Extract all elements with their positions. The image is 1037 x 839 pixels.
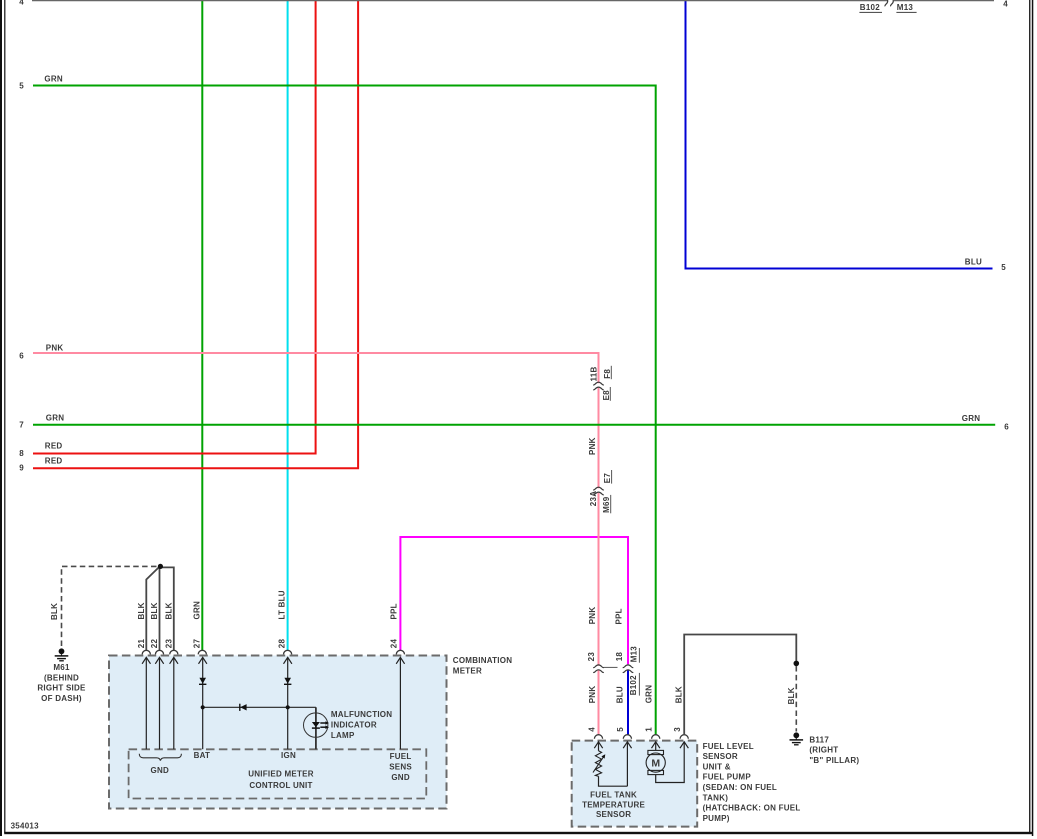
internal wire IGN	[287, 657, 289, 749]
pin arc 4	[594, 735, 602, 739]
svg-text:INDICATOR: INDICATOR	[331, 721, 377, 730]
svg-text:COMBINATION: COMBINATION	[453, 656, 512, 665]
pin arc 3	[680, 735, 688, 739]
svg-text:23A: 23A	[589, 491, 598, 506]
wire BLU row 5 right	[686, 0, 993, 269]
pin arc 21	[142, 650, 150, 654]
wire LT BLU vertical to combination meter pin 28	[287, 0, 289, 650]
svg-text:27: 27	[192, 639, 201, 649]
svg-text:FUEL LEVEL: FUEL LEVEL	[703, 742, 754, 751]
border frame right	[1029, 0, 1030, 833]
svg-text:METER: METER	[453, 667, 482, 676]
svg-text:24: 24	[390, 639, 399, 649]
pin arc 28	[284, 650, 292, 654]
svg-text:SENSOR: SENSOR	[596, 810, 631, 819]
connector M13/B102 on PPL/BLU wire	[623, 665, 634, 668]
svg-text:4: 4	[587, 727, 596, 732]
wire BLU to fuel pump pin 5	[627, 670, 629, 735]
diode BAT	[199, 678, 206, 685]
svg-text:28: 28	[278, 639, 287, 649]
internal wire motor to pin 3	[656, 742, 685, 783]
svg-text:M13: M13	[630, 646, 639, 663]
svg-text:B102: B102	[860, 3, 880, 12]
svg-text:GRN: GRN	[44, 74, 63, 83]
svg-text:IGN: IGN	[281, 751, 296, 760]
svg-text:RED: RED	[45, 441, 63, 450]
pin arc 23	[170, 650, 178, 654]
internal wire pin 4	[598, 742, 600, 751]
svg-text:9: 9	[19, 464, 24, 473]
svg-text:TEMPERATURE: TEMPERATURE	[582, 800, 645, 809]
svg-text:M61: M61	[53, 663, 70, 672]
svg-text:M13: M13	[897, 3, 914, 12]
combination meter box	[109, 656, 447, 809]
wire RED row 9	[33, 0, 358, 468]
connector tie line	[604, 666, 618, 668]
svg-text:PNK: PNK	[46, 344, 64, 353]
svg-text:5: 5	[616, 727, 625, 732]
svg-text:GND: GND	[391, 773, 410, 782]
svg-text:PNK: PNK	[588, 437, 597, 455]
svg-text:GRN: GRN	[192, 601, 201, 620]
dashed wire to B117	[795, 666, 797, 732]
svg-text:1: 1	[645, 727, 654, 732]
ground M61 dashed wire	[62, 566, 159, 646]
connector F8/E8 on PNK wire	[593, 382, 604, 385]
wire GRN row 7	[33, 424, 995, 426]
junction dot B117	[794, 661, 800, 667]
svg-text:B102: B102	[629, 675, 638, 695]
internal wire pin 5	[626, 742, 628, 786]
junction dot BAT	[201, 705, 205, 709]
diode horizontal	[240, 704, 246, 710]
svg-text:18: 18	[615, 652, 624, 662]
svg-text:7: 7	[19, 421, 24, 430]
unified meter control unit box	[129, 749, 427, 798]
pin arc 1	[652, 735, 660, 739]
wire PNK row 6 vertical chain	[33, 353, 599, 383]
ground M61	[55, 648, 69, 660]
svg-text:354013: 354013	[11, 822, 39, 831]
svg-text:LAMP: LAMP	[331, 731, 355, 740]
internal wire FUEL SENS GND	[399, 657, 401, 749]
internal wire pin 1 to motor	[655, 742, 657, 751]
svg-text:BLK: BLK	[787, 687, 796, 704]
svg-text:PPL: PPL	[390, 603, 399, 619]
connector M69/E7 on PNK wire	[593, 487, 604, 490]
svg-text:E7: E7	[603, 473, 612, 484]
svg-text:GRN: GRN	[645, 685, 654, 704]
svg-text:RED: RED	[45, 456, 63, 465]
svg-text:FUEL PUMP: FUEL PUMP	[703, 773, 752, 782]
wire RED row 8	[33, 0, 316, 454]
brace GND group	[139, 754, 181, 761]
thermistor fuel tank temperature sensor	[595, 751, 601, 777]
svg-text:22: 22	[150, 639, 159, 649]
svg-text:5: 5	[1001, 263, 1006, 272]
wire PPL from combination meter pin 24	[400, 537, 628, 664]
svg-text:PNK: PNK	[588, 607, 597, 625]
svg-text:B117: B117	[809, 735, 829, 744]
border frame left	[0, 0, 2, 836]
junction dot BLK wires	[158, 564, 163, 569]
ground B117	[790, 732, 804, 744]
svg-text:PUMP): PUMP)	[703, 814, 730, 823]
wire GRN vertical to combination meter pin 27	[201, 0, 203, 650]
svg-text:FUEL: FUEL	[390, 752, 412, 761]
svg-text:RIGHT SIDE: RIGHT SIDE	[37, 684, 86, 693]
svg-text:23: 23	[164, 639, 173, 649]
malfunction indicator lamp	[304, 713, 328, 737]
wire BLK row 4 top	[32, 0, 888, 2]
svg-text:BLK: BLK	[150, 602, 159, 619]
pin arc 24	[396, 650, 404, 654]
pin arc 22	[155, 650, 163, 654]
svg-text:PNK: PNK	[588, 686, 597, 704]
svg-text:TANK): TANK)	[703, 793, 729, 802]
svg-text:LT BLU: LT BLU	[278, 590, 287, 619]
pin arc 27	[198, 650, 206, 654]
svg-text:6: 6	[1004, 422, 1009, 431]
pin arc 5	[623, 735, 631, 739]
diode IGN	[284, 678, 291, 685]
svg-text:BLU: BLU	[965, 258, 982, 267]
svg-text:M69: M69	[602, 496, 611, 513]
svg-text:SENSOR: SENSOR	[703, 752, 738, 761]
internal wire 22	[159, 657, 161, 749]
svg-text:GRN: GRN	[962, 414, 981, 423]
svg-text:BLK: BLK	[164, 602, 173, 619]
svg-text:FUEL TANK: FUEL TANK	[590, 791, 637, 800]
connector B102/M13 row 4	[885, 0, 888, 6]
svg-text:F8: F8	[603, 369, 612, 379]
svg-text:E8: E8	[602, 390, 611, 401]
svg-text:(SEDAN: ON FUEL: (SEDAN: ON FUEL	[703, 783, 777, 792]
svg-text:11B: 11B	[590, 367, 599, 382]
svg-text:BLK: BLK	[50, 603, 59, 620]
svg-text:SENS: SENS	[389, 763, 412, 772]
wire BLK pin 3 to B117	[684, 635, 796, 736]
internal wire BAT	[202, 657, 204, 749]
svg-text:4: 4	[19, 0, 24, 6]
svg-text:5: 5	[19, 81, 24, 90]
wire BLK 23	[160, 567, 173, 650]
internal wire 23	[173, 657, 175, 749]
svg-text:21: 21	[137, 639, 146, 649]
svg-text:GND: GND	[151, 766, 170, 775]
wire GRN row 5 to fuel pump pin 1	[33, 86, 656, 736]
svg-text:PPL: PPL	[614, 608, 623, 624]
svg-text:BLU: BLU	[616, 686, 625, 703]
internal wire BAT-IGN-lamp	[203, 706, 316, 708]
svg-text:(BEHIND: (BEHIND	[44, 673, 79, 682]
svg-text:UNIT &: UNIT &	[703, 762, 731, 771]
svg-text:BLK: BLK	[675, 686, 684, 703]
connector 23 near fuel box	[593, 665, 604, 668]
svg-text:3: 3	[673, 727, 682, 732]
motor M fuel pump	[648, 750, 664, 754]
svg-text:GRN: GRN	[46, 414, 65, 423]
fuel pump box	[572, 741, 698, 827]
svg-text:23: 23	[587, 652, 596, 662]
junction dot IGN	[286, 705, 290, 709]
internal wire 21	[145, 657, 147, 749]
wire BLK 22	[159, 566, 161, 650]
svg-text:MALFUNCTION: MALFUNCTION	[331, 710, 392, 719]
svg-text:CONTROL UNIT: CONTROL UNIT	[249, 781, 312, 790]
svg-text:M: M	[651, 757, 660, 769]
svg-text:(RIGHT: (RIGHT	[809, 746, 838, 755]
svg-text:(HATCHBACK: ON FUEL: (HATCHBACK: ON FUEL	[703, 804, 801, 813]
border frame bottom	[4, 832, 1032, 834]
svg-text:UNIFIED METER: UNIFIED METER	[248, 769, 313, 778]
svg-text:BLK: BLK	[137, 602, 146, 619]
svg-text:"B" PILLAR): "B" PILLAR)	[809, 756, 859, 765]
internal wire thermistor bottom	[599, 776, 628, 786]
svg-text:BAT: BAT	[194, 751, 211, 760]
wire BLK 21	[146, 568, 158, 651]
svg-text:4: 4	[1003, 0, 1008, 9]
svg-text:6: 6	[19, 351, 24, 360]
svg-text:OF DASH): OF DASH)	[41, 694, 82, 703]
svg-text:8: 8	[19, 449, 24, 458]
